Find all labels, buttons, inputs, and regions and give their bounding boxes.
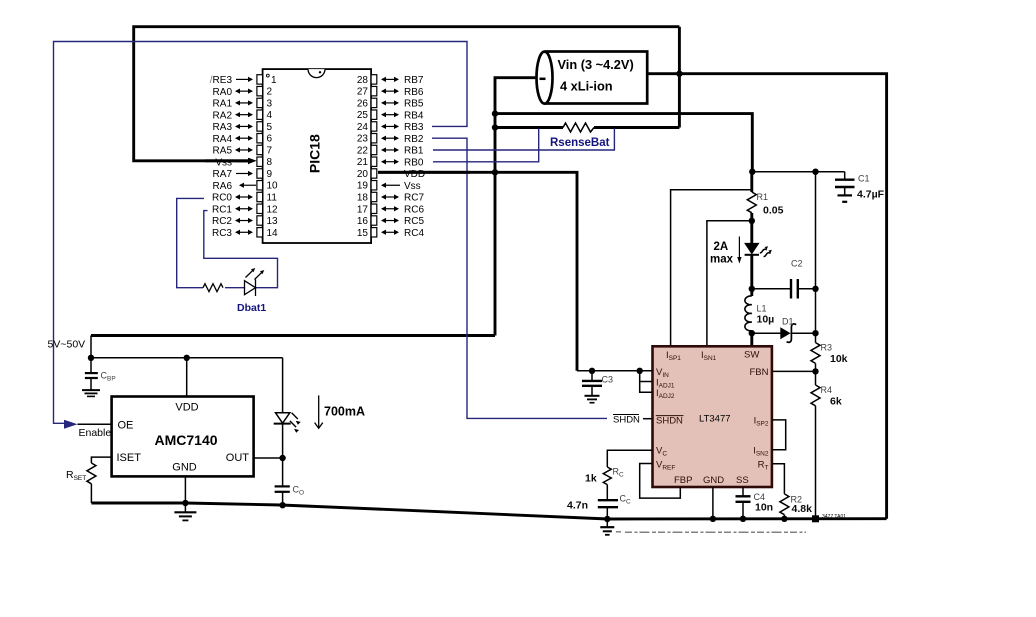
svg-text:OUT: OUT <box>226 452 250 464</box>
node R1 bottom <box>749 218 755 224</box>
node CC bus <box>604 516 610 522</box>
node L1 bottom / SW <box>749 330 755 336</box>
LED D700 output <box>274 413 301 486</box>
PIC18 pin 20 (VDD) <box>357 169 425 180</box>
node R2 bus <box>781 516 787 522</box>
PIC18 pin 11 (RC0) <box>212 192 277 203</box>
svg-text:R4: R4 <box>821 385 833 395</box>
node Co bus <box>279 502 285 508</box>
blue circuit Dbat1: RC0 down <box>177 198 204 287</box>
node VDD tap <box>184 355 190 361</box>
svg-text:6: 6 <box>267 134 273 145</box>
capacitor CC 4.7n <box>567 494 631 520</box>
svg-text:RA1: RA1 <box>213 99 233 110</box>
svg-text:RB1: RB1 <box>404 146 424 157</box>
Enable arrow + wire <box>64 420 112 439</box>
PIC18 pin 23 (RB2) <box>357 134 424 145</box>
svg-text:Vss: Vss <box>404 181 421 192</box>
svg-text:27: 27 <box>357 87 369 98</box>
svg-text:RC4: RC4 <box>404 228 424 239</box>
svg-text:RB0: RB0 <box>404 157 424 168</box>
wire RsenseBat net <box>495 126 563 129</box>
svg-text:4: 4 <box>267 110 273 121</box>
svg-text:Enable: Enable <box>79 427 112 439</box>
resistor R2 4.8k <box>780 494 812 519</box>
PIC18 pin 8 (Vss) <box>215 157 272 168</box>
capacitor Co <box>275 485 304 506</box>
LT3477 pin labels <box>656 350 769 487</box>
PIC18 pin 26 (RB5) <box>357 98 424 109</box>
inductor L1 10u <box>745 289 774 347</box>
svg-text:RA5: RA5 <box>213 146 233 157</box>
svg-text:RC3: RC3 <box>212 228 232 239</box>
svg-text:SW: SW <box>744 350 759 361</box>
capacitor CBP <box>82 358 116 397</box>
svg-text:FBP: FBP <box>674 475 692 486</box>
node FBN <box>812 368 818 374</box>
svg-text:GND: GND <box>703 475 724 486</box>
svg-text:SHDN: SHDN <box>656 416 683 427</box>
svg-text:R3: R3 <box>821 343 833 353</box>
resistor R3 10k <box>811 343 848 386</box>
svg-text:RB5: RB5 <box>404 99 424 110</box>
capacitor C2 <box>752 259 816 299</box>
svg-text:RC5: RC5 <box>404 216 424 227</box>
svg-text:C1: C1 <box>858 174 870 184</box>
svg-text:SS: SS <box>736 475 749 486</box>
capacitor C4 10n on SS <box>736 487 774 519</box>
svg-text:Dbat1: Dbat1 <box>237 302 266 314</box>
PIC18 pin 22 (RB1) <box>357 145 424 156</box>
PIC18 pin 15 (RC4) <box>357 228 425 239</box>
PIC18 pin 14 (RC3) <box>212 228 278 239</box>
svg-text:RB3: RB3 <box>404 122 424 133</box>
ground under CC <box>600 519 614 535</box>
PIC18 pin 19 (Vss) <box>357 181 421 192</box>
svg-text:10n: 10n <box>755 502 773 514</box>
svg-text:1k: 1k <box>585 473 597 485</box>
svg-text:C3: C3 <box>602 375 614 385</box>
svg-text:/RE3: /RE3 <box>210 75 233 86</box>
svg-text:RB4: RB4 <box>404 110 424 121</box>
svg-text:max: max <box>710 254 734 266</box>
node battery plus junction <box>676 71 682 77</box>
node LED bottom / C2 left <box>749 286 755 292</box>
PIC18 pin 6 (RA4) <box>213 134 273 145</box>
svg-text:RC7: RC7 <box>404 193 424 204</box>
svg-text:20: 20 <box>357 169 369 180</box>
wire RT to R2 <box>772 464 785 494</box>
blue loop RB3 to Enable <box>54 42 468 424</box>
node C4 bus <box>740 516 746 522</box>
wire VREF-FBP bracket <box>640 464 681 499</box>
wire output rail x815 <box>815 172 817 343</box>
svg-text:10µ: 10µ <box>757 314 775 326</box>
PIC18 pin 1 (RE3) <box>210 75 277 86</box>
wire battery vertical at x679 <box>678 27 681 128</box>
svg-text:15: 15 <box>357 228 369 239</box>
wire battery left terminal <box>495 78 538 336</box>
node C1 tap <box>812 169 818 175</box>
svg-text:FBN: FBN <box>750 367 769 378</box>
svg-text:ISET: ISET <box>117 452 142 464</box>
node GND bus <box>710 516 716 522</box>
blue circuit Dbat1: RC1 down <box>204 211 278 288</box>
PIC18 pin 13 (RC2) <box>212 216 278 227</box>
label 2A max with arrow <box>710 237 742 266</box>
svg-text:SHDN: SHDN <box>613 414 640 425</box>
PIC18 pin 10 (RA6) <box>213 181 279 192</box>
wire sense RB1 (blue) <box>433 129 614 151</box>
svg-text:VDD: VDD <box>175 402 198 414</box>
wire GND pin to bus <box>712 487 714 519</box>
svg-text:RA3: RA3 <box>213 122 233 133</box>
svg-text:22: 22 <box>357 145 369 156</box>
svg-text:L1: L1 <box>757 304 767 314</box>
battery B1 Vin 4xLi-ion <box>537 52 648 104</box>
wire IADJ bracket <box>640 371 653 382</box>
svg-text:10k: 10k <box>830 353 848 365</box>
label 700mA with arrow <box>315 395 365 428</box>
PIC18 pin 28 (RB7) <box>357 75 424 86</box>
svg-text:4 xLi-ion: 4 xLi-ion <box>560 79 613 94</box>
LED Dbat1 <box>245 268 265 296</box>
svg-text:LT3477: LT3477 <box>699 414 731 425</box>
svg-text:5V~50V: 5V~50V <box>48 339 86 351</box>
PIC18 pin 12 (RC1) <box>212 204 278 215</box>
PIC18 pin 21 (RB0) <box>357 157 424 168</box>
svg-text:6k: 6k <box>830 396 842 408</box>
svg-text:PIC18: PIC18 <box>306 134 322 173</box>
svg-text:700mA: 700mA <box>324 405 365 419</box>
node R1 top <box>749 169 755 175</box>
wire overlay pin20 VDD <box>378 171 470 174</box>
wire VIN line with C3/IADJ taps <box>577 370 653 372</box>
svg-text:21: 21 <box>357 157 369 168</box>
wire FBN stub <box>772 370 816 372</box>
capacitor C1 <box>752 172 884 202</box>
svg-text:11: 11 <box>267 193 278 204</box>
wire ground bus (slanted) <box>91 503 886 519</box>
resistor Dbat series <box>203 284 223 292</box>
wire ISET to RSET <box>91 457 111 463</box>
PIC18 pin 17 (RC6) <box>357 204 425 215</box>
wire ISN1 tap <box>707 221 752 346</box>
svg-text:24: 24 <box>357 122 369 133</box>
svg-text:3: 3 <box>267 98 273 109</box>
svg-text:2A: 2A <box>714 241 729 253</box>
svg-text:RB6: RB6 <box>404 87 424 98</box>
svg-text:5: 5 <box>267 122 273 133</box>
wire battery plus rail to right edge <box>648 74 887 519</box>
svg-text:26: 26 <box>357 98 369 109</box>
svg-text:D1: D1 <box>782 317 794 327</box>
svg-text:RA6: RA6 <box>213 181 233 192</box>
PIC18 pin 25 (RB4) <box>357 110 424 121</box>
wire top loop (Vss to battery minus) <box>134 27 680 164</box>
svg-text:19: 19 <box>357 181 369 192</box>
svg-text:AMC7140: AMC7140 <box>154 432 217 448</box>
PIC18 pin 7 (RA5) <box>213 145 273 156</box>
svg-text:7: 7 <box>267 145 273 156</box>
svg-text:9: 9 <box>267 169 273 180</box>
svg-text:4.7n: 4.7n <box>567 500 588 512</box>
PIC18 pin 4 (RA2) <box>213 110 273 121</box>
PIC18 pin 18 (RC7) <box>357 192 425 203</box>
node at x495 y127.5 <box>492 124 498 130</box>
wire 5V~50V supply line <box>91 334 495 337</box>
svg-text:0.05: 0.05 <box>763 205 784 217</box>
wire VC to RC <box>607 450 652 467</box>
node GND bus <box>182 500 188 506</box>
wire ISP2-ISN2 bracket <box>772 420 786 450</box>
svg-text:RB7: RB7 <box>404 75 424 86</box>
PIC18 pin 2 (RA0) <box>213 86 273 97</box>
svg-text:R1: R1 <box>757 192 769 202</box>
svg-text:17: 17 <box>357 204 369 215</box>
svg-text:C2: C2 <box>791 259 803 269</box>
svg-text:VDD: VDD <box>404 169 425 180</box>
svg-text:23: 23 <box>357 134 369 145</box>
svg-text:OE: OE <box>118 420 134 432</box>
IC AMC7140 body <box>112 397 254 477</box>
svg-text:C4: C4 <box>754 492 766 502</box>
PIC18 pin 24 (RB3) <box>357 122 424 133</box>
resistor R4 6k <box>811 385 842 519</box>
svg-text:RA7: RA7 <box>213 169 233 180</box>
PIC18 pin 9 (RA7) <box>213 169 273 180</box>
svg-text:2: 2 <box>267 87 273 98</box>
node CBP tap <box>88 355 94 361</box>
wire Vin feed to R1 rail <box>495 114 752 172</box>
capacitor C3 <box>582 371 613 403</box>
svg-text:12: 12 <box>267 204 279 215</box>
IC LT3477 body <box>653 346 772 487</box>
ground under AMC7140 <box>174 503 196 520</box>
svg-text:Vss: Vss <box>215 157 232 168</box>
svg-text:RB2: RB2 <box>404 134 424 145</box>
svg-text:16: 16 <box>357 216 369 227</box>
svg-text:RA0: RA0 <box>213 87 233 98</box>
svg-text:10: 10 <box>267 181 279 192</box>
svg-text:4.8k: 4.8k <box>792 503 813 515</box>
label SHDN external + stub <box>613 414 653 425</box>
node IADJ tap <box>637 368 643 374</box>
svg-text:13: 13 <box>267 216 279 227</box>
wire ISP1 tap <box>671 190 752 346</box>
svg-text:1: 1 <box>271 75 277 86</box>
svg-text:RA2: RA2 <box>213 110 233 121</box>
resistor RSET <box>66 463 96 503</box>
wire supply drop + thin rail <box>90 336 92 358</box>
svg-text:RC0: RC0 <box>212 193 232 204</box>
svg-text:28: 28 <box>357 75 369 86</box>
resistor RC 1k <box>585 467 624 500</box>
svg-text:8: 8 <box>267 157 273 168</box>
wire PIC VDD pin20 to LT3477 VIN <box>378 172 577 370</box>
PIC18 pin 16 (RC5) <box>357 216 425 227</box>
svg-text:GND: GND <box>172 462 197 474</box>
svg-text:RC2: RC2 <box>212 216 232 227</box>
node R4 bus (square) <box>812 515 819 522</box>
svg-text:RC1: RC1 <box>212 204 232 215</box>
svg-text:4.7µF: 4.7µF <box>857 189 885 201</box>
resistor R1 0.05 <box>747 172 783 244</box>
node OUT <box>279 455 285 461</box>
LED load (2A) <box>745 243 772 288</box>
node at x495 y113.6 <box>492 110 498 116</box>
wire LED drop <box>282 358 284 413</box>
svg-text:RsenseBat: RsenseBat <box>550 137 610 149</box>
wire overlay pin8 Vss <box>205 159 248 162</box>
svg-text:RC6: RC6 <box>404 204 424 215</box>
wire VDD pin drop <box>186 358 188 397</box>
PIC18 pin 3 (RA1) <box>213 98 273 109</box>
node C2 right <box>812 286 818 292</box>
wire sense RB0 (blue) <box>433 129 539 162</box>
caption dashes <box>616 531 806 534</box>
svg-text:Vin (3 ~4.2V): Vin (3 ~4.2V) <box>558 57 634 72</box>
wire OUT to LED node <box>254 457 283 459</box>
PIC18 pin 5 (RA3) <box>213 122 273 133</box>
node C3 tap <box>589 368 595 374</box>
svg-text:14: 14 <box>267 228 279 239</box>
svg-text:RA4: RA4 <box>213 134 233 145</box>
svg-text:18: 18 <box>357 193 369 204</box>
IC PIC18 body <box>263 69 372 243</box>
node D1 cathode <box>812 330 818 336</box>
svg-text:25: 25 <box>357 110 369 121</box>
PIC18 pin 27 (RB6) <box>357 86 424 97</box>
diode D1 schottky <box>752 317 816 343</box>
node at x495 y172.3 <box>492 169 498 175</box>
resistor RsenseBat <box>563 123 594 132</box>
wire GND pin drop <box>184 476 186 503</box>
blue wire RB2 to SHDN <box>432 138 607 418</box>
